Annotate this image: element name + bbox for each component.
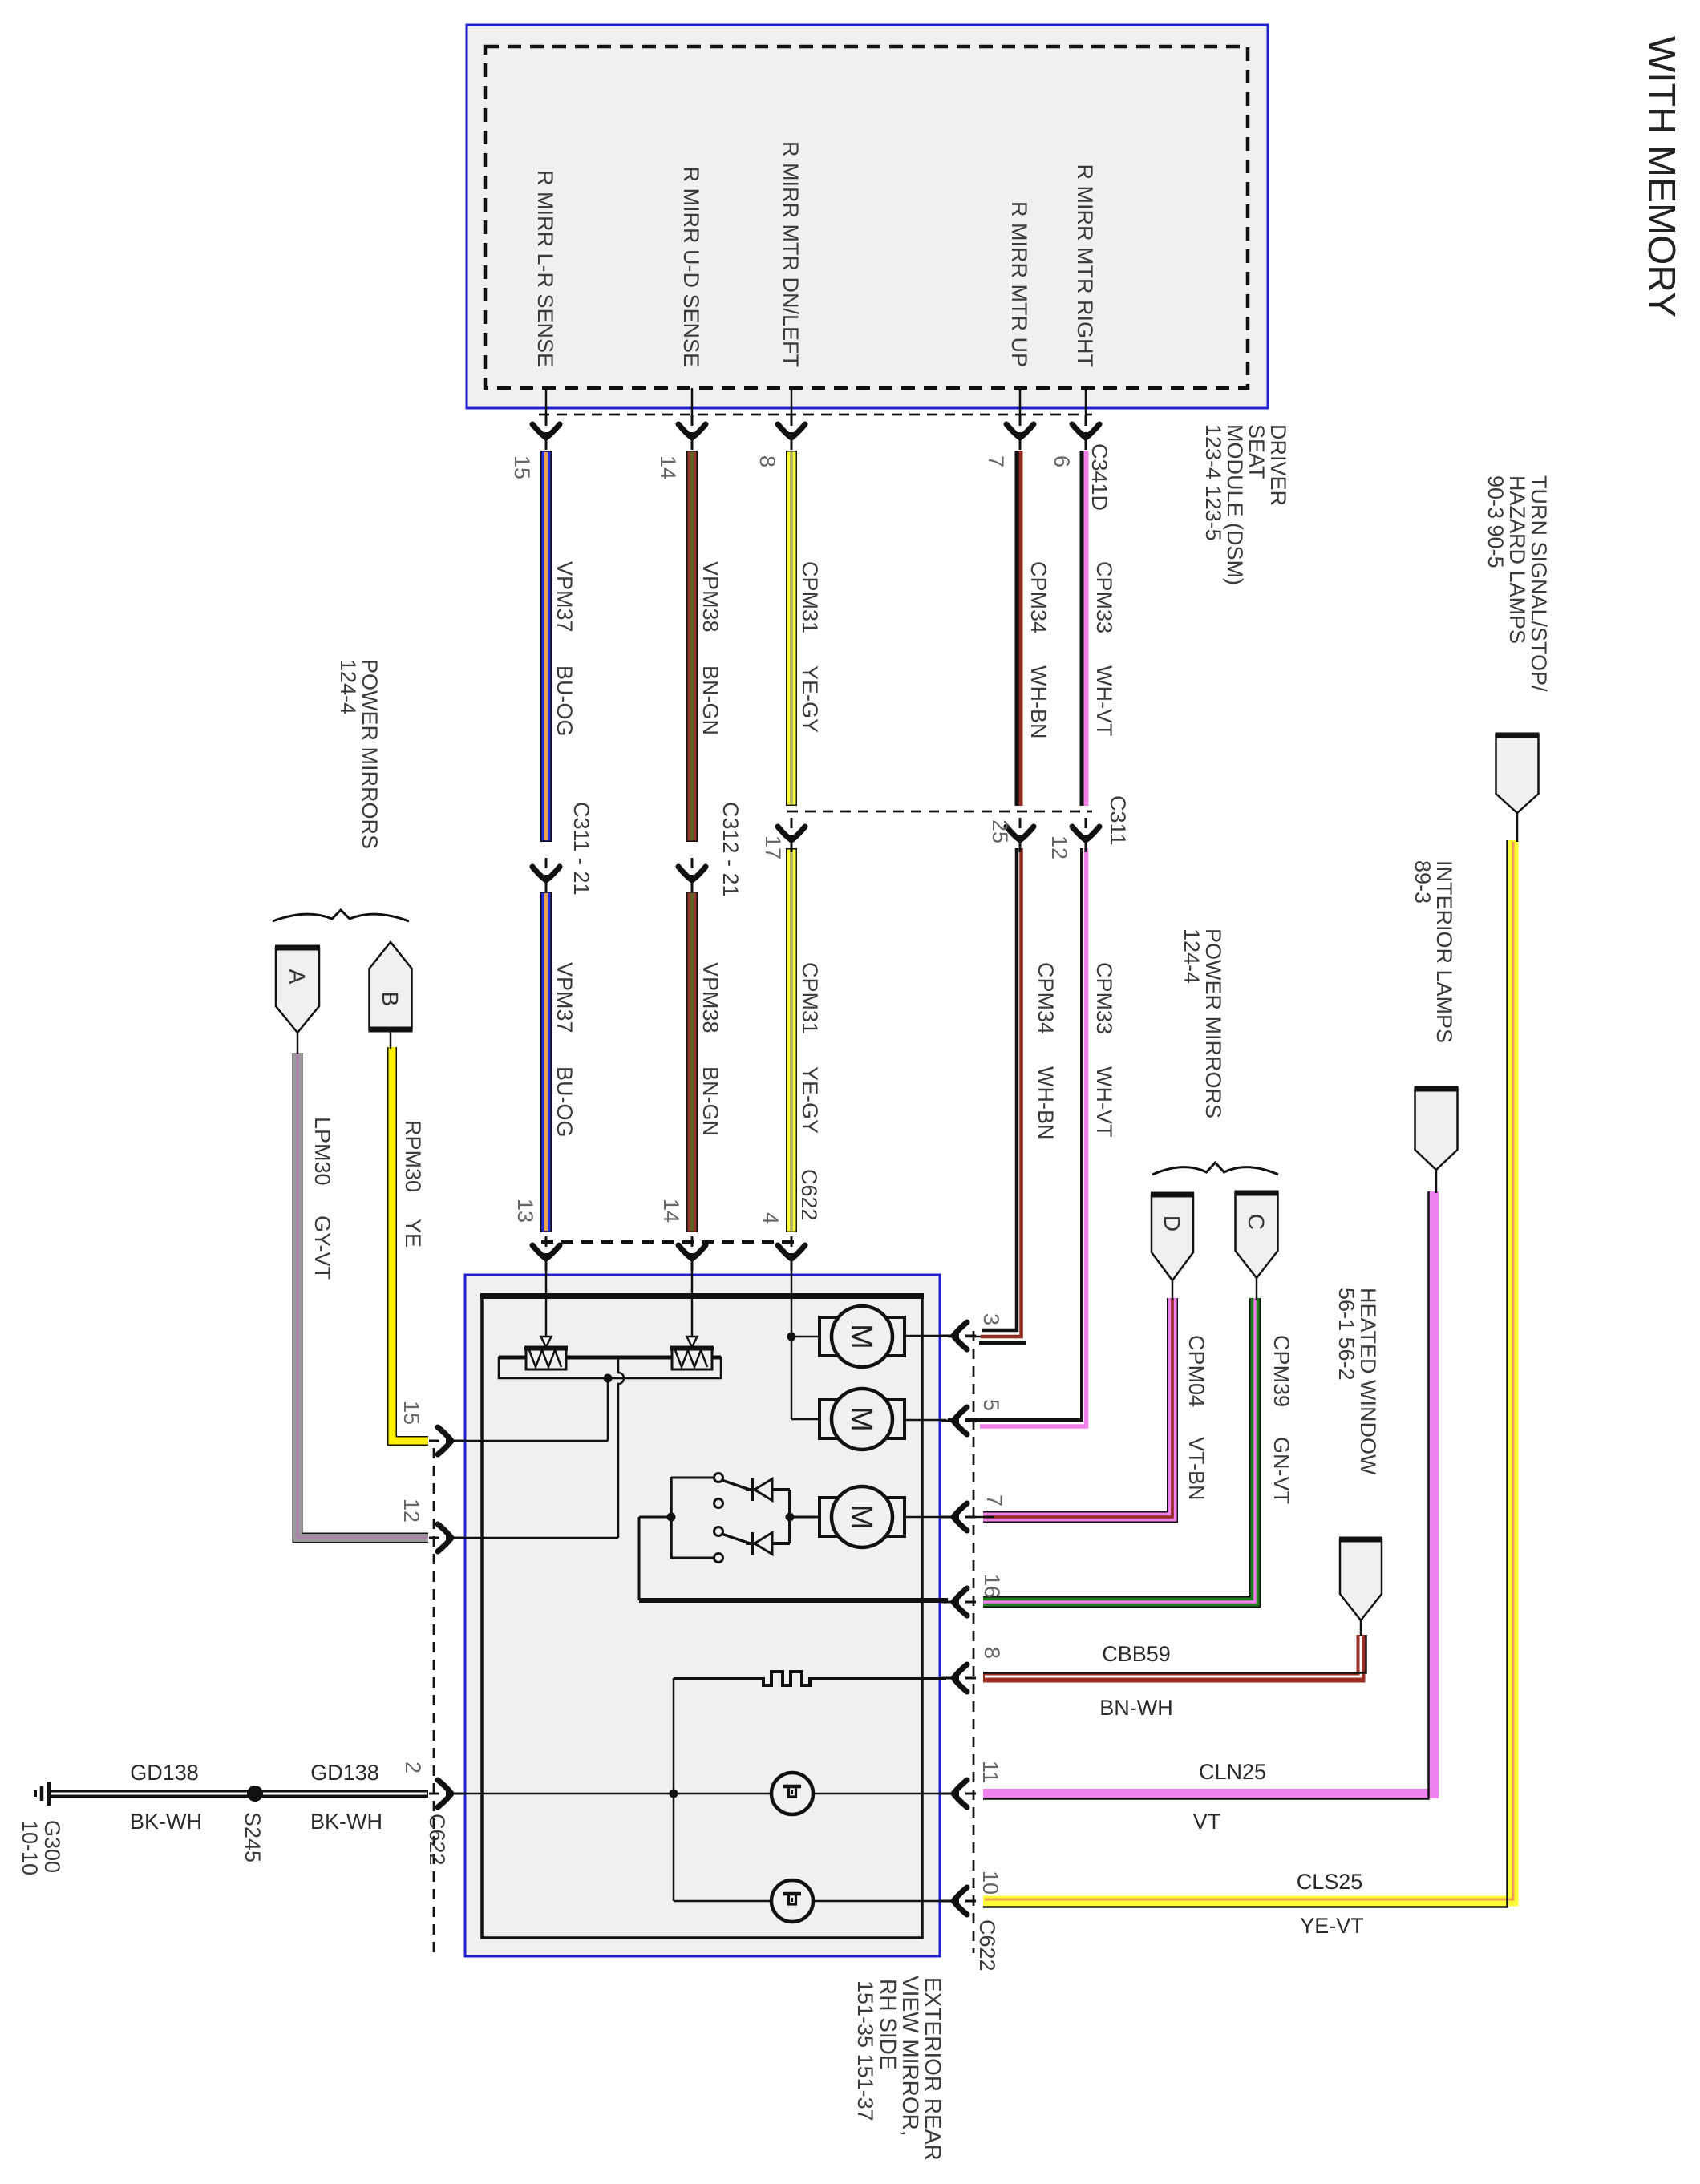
wire CPM34 WH-BN seg1 — [1017, 451, 1021, 806]
wire label CPM34 lower — [1034, 962, 1058, 1034]
wire VPM38 BN-GN seg1 — [686, 451, 698, 842]
wire label RPM30 — [401, 1120, 425, 1192]
pin 14b label — [659, 1199, 683, 1223]
svg-text:3: 3 — [979, 1313, 1003, 1325]
switch contact b — [714, 1499, 723, 1508]
pin 7 label — [984, 455, 1008, 467]
connector C622 left dashed line — [433, 1448, 435, 1953]
wire label YE — [401, 1219, 425, 1248]
wire label CPM33 lower — [1092, 962, 1116, 1034]
svg-text:CPM39: CPM39 — [1269, 1335, 1293, 1407]
svg-text:5: 5 — [979, 1399, 1003, 1411]
splice S245 — [247, 1786, 263, 1802]
DSM label R MIRR U-D SENSE — [679, 166, 703, 367]
pin14 wiper feed wire — [691, 1262, 694, 1337]
wire VPM38 BN-GN seg2 — [686, 892, 698, 1232]
svg-text:CPM31: CPM31 — [798, 561, 822, 633]
wire label YE-VT b — [1300, 1914, 1364, 1938]
svg-text:YE-GY: YE-GY — [798, 665, 822, 733]
connector C622 pin10 arrow — [941, 1887, 976, 1915]
connector C622 top dashed line — [541, 1240, 795, 1244]
motor1 feed branch wire — [791, 1336, 820, 1338]
wire label BU-OG lower — [552, 1066, 577, 1138]
wire CPM39 GN-VT — [983, 1298, 1255, 1602]
svg-text:TURN SIGNAL/STOP/: TURN SIGNAL/STOP/ — [1527, 475, 1551, 692]
connector C341D arrow x1354 — [1072, 415, 1099, 450]
switch blade 2 wire — [722, 1534, 750, 1543]
label C311 - 21 — [569, 802, 593, 896]
wire label VPM37 lower — [552, 962, 577, 1033]
wire LPM30 GY-VT — [297, 1053, 428, 1538]
wire label BN-GN — [698, 665, 722, 735]
label C622 bottom — [975, 1919, 999, 1972]
ground wire GD138 BK-WH — [48, 1790, 428, 1798]
connector C622 pin11 arrow — [941, 1780, 976, 1807]
svg-text:CPM33: CPM33 — [1092, 561, 1116, 633]
sensor R1 wiper arrow — [541, 1337, 552, 1347]
wire label CLN25 — [1199, 1760, 1266, 1784]
switch contact a — [714, 1474, 723, 1482]
wire label VT-BN — [1184, 1437, 1208, 1501]
svg-text:YE-GY: YE-GY — [798, 1066, 822, 1134]
pin 6 label — [1050, 455, 1074, 467]
svg-text:VPM38: VPM38 — [698, 962, 722, 1033]
svg-text:C: C — [1244, 1214, 1269, 1230]
svg-text:C622: C622 — [425, 1814, 449, 1866]
pin 11 label — [978, 1761, 1002, 1783]
pin15 supply wire — [453, 1378, 608, 1441]
wire label CPM31 — [798, 561, 822, 633]
svg-text:14: 14 — [656, 455, 680, 479]
svg-text:90-3 90-5: 90-3 90-5 — [1483, 475, 1508, 568]
exterior mirror box — [465, 1275, 940, 1956]
wire CLN25 VT — [983, 1191, 1434, 1799]
svg-text:YE-VT: YE-VT — [1300, 1914, 1364, 1938]
label C312 - 21 — [718, 802, 743, 897]
heated window stub wire — [1360, 1620, 1362, 1636]
wire VPM37 BU-OG seg2 — [540, 892, 552, 1232]
wire CPM34 WH-BN seg2 — [979, 848, 1026, 1343]
pin 16 label — [980, 1574, 1004, 1598]
svg-text:8: 8 — [755, 455, 779, 467]
svg-text:CLS25: CLS25 — [1297, 1870, 1363, 1894]
pin 2 label — [401, 1761, 425, 1773]
wire label VPM37 — [552, 561, 577, 633]
pin4 common feed wire — [791, 1262, 793, 1337]
svg-text:VPM37: VPM37 — [552, 561, 577, 633]
svg-text:10-10: 10-10 — [18, 1820, 42, 1875]
label TURN SIGNAL/STOP/ HAZARD LAMPS — [1483, 475, 1551, 692]
pin 4 label — [759, 1212, 783, 1224]
lamp L1 puddle — [771, 1773, 813, 1814]
pin 12b label — [399, 1498, 423, 1523]
motor U2 mirror left/right — [820, 1389, 905, 1450]
pin 7b label — [982, 1494, 1006, 1507]
pin16 return bus wire — [639, 1598, 948, 1603]
junction switch common — [667, 1513, 676, 1522]
svg-text:124-4: 124-4 — [1180, 928, 1204, 984]
pin 25 label — [988, 819, 1012, 843]
label HEATED WINDOW 56-1 56-2 — [1334, 1288, 1380, 1475]
wire label CLS25 — [1297, 1870, 1363, 1894]
svg-text:R MIRR MTR UP: R MIRR MTR UP — [1007, 201, 1031, 367]
sensor center tap wire with hop — [618, 1357, 624, 1538]
connector C341D arrow x681 — [532, 415, 560, 450]
svg-text:15: 15 — [399, 1401, 423, 1425]
connector C622 pin13 arrow — [532, 1236, 560, 1271]
diode D1 — [746, 1478, 790, 1501]
svg-text:15: 15 — [510, 455, 534, 479]
svg-text:C311 - 21: C311 - 21 — [569, 802, 593, 896]
svg-text:7: 7 — [984, 455, 1008, 467]
connector C311 pin12 arrow — [1072, 818, 1099, 852]
label POWER MIRRORS 124-4 left — [336, 659, 382, 849]
DSM label R MIRR L-R SENSE — [533, 170, 557, 367]
svg-text:7: 7 — [982, 1494, 1006, 1507]
fold switch bracket wire — [671, 1477, 714, 1559]
svg-text:124-4: 124-4 — [336, 659, 360, 714]
DSM pin stub wire x1354 — [1085, 388, 1087, 446]
svg-text:25: 25 — [988, 819, 1012, 843]
ground G300 symbol — [35, 1782, 49, 1806]
wire label CPM33 — [1092, 561, 1116, 633]
svg-text:89-3: 89-3 — [1411, 860, 1435, 904]
connector C622 pin7 arrow — [941, 1503, 976, 1531]
svg-text:GY-VT: GY-VT — [310, 1215, 334, 1280]
pin 15 label — [510, 455, 534, 479]
label S245 — [241, 1812, 265, 1862]
mirror inner case rect — [480, 1295, 924, 1938]
connector A — [275, 948, 320, 1033]
position sensor R2 element — [670, 1347, 714, 1369]
svg-text:C622: C622 — [975, 1919, 999, 1972]
position sensor body — [499, 1357, 721, 1378]
svg-text:CPM34: CPM34 — [1026, 561, 1050, 633]
heater return wire — [673, 1678, 675, 1901]
pin13 wiper feed wire — [545, 1262, 548, 1337]
wire label BN-GN lower — [698, 1066, 722, 1136]
lamp2 feed wire — [674, 1900, 946, 1903]
svg-text:12: 12 — [399, 1498, 423, 1523]
brace power mirrors A-B — [273, 910, 409, 921]
connector turn signal feed — [1496, 735, 1540, 813]
DSM pin stub wire x681 — [545, 388, 548, 446]
svg-text:INTERIOR LAMPS: INTERIOR LAMPS — [1432, 860, 1456, 1043]
svg-text:6: 6 — [1050, 455, 1074, 467]
svg-text:M: M — [844, 1504, 878, 1530]
svg-text:EXTERIOR REAR: EXTERIOR REAR — [921, 1977, 945, 2161]
pin7 wire — [948, 1516, 994, 1519]
svg-text:10: 10 — [978, 1871, 1002, 1895]
motor2 to pin5 wire — [905, 1419, 946, 1422]
lamp1 feed wire pin2 to pin11 — [453, 1793, 946, 1795]
connector C622 pin2 arrow — [429, 1780, 463, 1807]
wire label YE-GY lower — [798, 1066, 822, 1134]
pin 5 label — [979, 1399, 1003, 1411]
wire label VPM38 lower — [698, 962, 722, 1033]
connector interior lamps feed — [1415, 1089, 1459, 1170]
svg-text:GD138: GD138 — [310, 1761, 379, 1785]
svg-text:BU-OG: BU-OG — [552, 665, 577, 737]
svg-text:M: M — [844, 1406, 878, 1432]
wire label WH-VT — [1092, 665, 1116, 736]
wire label WH-BN — [1026, 665, 1050, 738]
DSM label R MIRR MTR DN/LEFT — [779, 141, 803, 367]
svg-text:G300: G300 — [40, 1820, 64, 1873]
svg-text:A: A — [285, 969, 310, 985]
svg-text:151-35 151-37: 151-35 151-37 — [853, 1980, 877, 2121]
motor3 to pin7 wire — [905, 1516, 946, 1519]
svg-text:CPM31: CPM31 — [798, 962, 822, 1034]
svg-text:B: B — [378, 992, 403, 1007]
wire label WH-BN lower — [1034, 1066, 1058, 1139]
sensor R2 wiper arrow — [687, 1337, 698, 1347]
svg-text:R MIRR MTR RIGHT: R MIRR MTR RIGHT — [1073, 164, 1097, 367]
wire RPM30 YE — [392, 1047, 428, 1441]
wire label CPM04 — [1184, 1335, 1208, 1407]
svg-text:R MIRR U-D SENSE: R MIRR U-D SENSE — [679, 166, 703, 367]
wire label BN-WH b — [1099, 1696, 1172, 1720]
wire VPM37 BU-OG seg1 — [540, 451, 552, 842]
position sensor track bar — [499, 1356, 721, 1360]
DSM label R MIRR MTR RIGHT — [1073, 164, 1097, 367]
pin 3 label — [979, 1313, 1003, 1325]
connector C622 pin14 arrow — [678, 1236, 706, 1271]
svg-text:D: D — [1160, 1215, 1184, 1232]
svg-text:CBB59: CBB59 — [1102, 1642, 1171, 1666]
connector C311 dashed line — [787, 811, 1092, 813]
pin12 return wire — [453, 1537, 618, 1539]
switch contact c — [714, 1527, 723, 1536]
connector C341D dashed line — [539, 414, 1092, 416]
svg-text:WH-BN: WH-BN — [1026, 665, 1050, 738]
heater element — [674, 1672, 946, 1685]
svg-text:DRIVER: DRIVER — [1266, 424, 1290, 506]
connector C622 pin4 arrow — [778, 1236, 805, 1271]
svg-text:WH-BN: WH-BN — [1034, 1066, 1058, 1139]
pin 8b label — [980, 1647, 1004, 1659]
svg-text:POWER MIRRORS: POWER MIRRORS — [1201, 928, 1225, 1118]
title WITH MEMORY — [1640, 36, 1682, 317]
DSM pin stub wire x863 — [691, 388, 694, 446]
label G300 10-10 — [18, 1820, 64, 1875]
connector C622 pin12 arrow — [429, 1524, 463, 1551]
wire label CPM39 — [1269, 1335, 1293, 1407]
connector C622 pin3 arrow — [941, 1322, 976, 1349]
junction sensor common — [604, 1374, 613, 1383]
svg-text:R MIRR MTR DN/LEFT: R MIRR MTR DN/LEFT — [779, 141, 803, 367]
connector C311-21 arrow — [532, 858, 560, 892]
connector C341D arrow x863 — [678, 415, 706, 450]
svg-text:56-1 56-2: 56-1 56-2 — [1334, 1288, 1358, 1381]
svg-text:BK-WH: BK-WH — [310, 1810, 382, 1834]
svg-text:WH-VT: WH-VT — [1092, 1066, 1116, 1137]
label INTERIOR LAMPS 89-3 — [1411, 860, 1456, 1043]
svg-text:VPM37: VPM37 — [552, 962, 577, 1033]
pin 14 label — [656, 455, 680, 479]
label EXTERIOR REAR VIEW MIRROR RH SIDE — [853, 1976, 945, 2161]
svg-text:BK-WH: BK-WH — [130, 1810, 202, 1834]
svg-text:2: 2 — [401, 1761, 425, 1773]
svg-text:12: 12 — [1047, 835, 1071, 859]
brace power mirrors C-D — [1152, 1163, 1278, 1175]
connector C341D arrow x987 — [778, 415, 805, 450]
svg-text:GN-VT: GN-VT — [1269, 1437, 1293, 1504]
svg-text:RH SIDE: RH SIDE — [876, 1979, 901, 2070]
interior lamps stub wire — [1435, 1170, 1438, 1193]
pin 17 label — [761, 835, 785, 859]
wire label YE-GY — [798, 665, 822, 733]
motor2 feed branch wire — [791, 1418, 820, 1421]
wire CPM31 YE-GY seg2 — [786, 848, 797, 1232]
svg-text:BN-GN: BN-GN — [698, 1066, 722, 1136]
svg-text:C341D: C341D — [1087, 443, 1111, 511]
pin 12 label — [1047, 835, 1071, 859]
wire CPM04 VT-BN — [983, 1298, 1172, 1517]
svg-text:13: 13 — [513, 1199, 537, 1223]
connector D stub wire — [1172, 1280, 1174, 1300]
wire label BK-WH right — [310, 1810, 382, 1834]
junction lamp feed — [670, 1790, 678, 1798]
svg-text:MODULE (DSM): MODULE (DSM) — [1223, 424, 1247, 585]
wire label LPM30 — [310, 1117, 334, 1186]
label C622 wire4 — [797, 1169, 821, 1221]
diode D2 — [746, 1532, 790, 1555]
DSM pin stub wire x1272 — [1019, 388, 1022, 446]
svg-text:BU-OG: BU-OG — [552, 1066, 577, 1138]
junction motor feed — [787, 1333, 796, 1341]
pin3 wire — [948, 1336, 981, 1338]
wire label GN-VT — [1269, 1437, 1293, 1504]
connector A stub wire — [297, 1033, 299, 1054]
svg-text:VT: VT — [1193, 1810, 1221, 1834]
connector D — [1151, 1195, 1194, 1280]
connector B stub wire — [390, 1029, 392, 1049]
switch blade 1 wire — [722, 1480, 750, 1490]
wire label WH-VT lower — [1092, 1066, 1116, 1137]
connector C622 pin5 arrow — [941, 1407, 976, 1434]
svg-text:BN-WH: BN-WH — [1099, 1696, 1172, 1720]
svg-text:14: 14 — [659, 1199, 683, 1223]
svg-text:POWER MIRRORS: POWER MIRRORS — [358, 659, 382, 849]
lamp L2 puddle — [771, 1880, 813, 1922]
svg-text:YE: YE — [401, 1219, 425, 1248]
DSM pin stub wire x987 — [791, 388, 793, 446]
pin 13 label — [513, 1199, 537, 1223]
connector C341D arrow x1272 — [1006, 415, 1034, 450]
pin 10 label — [978, 1871, 1002, 1895]
wire CPM33 WH-VT seg2 — [948, 848, 1087, 1426]
wire label GY-VT — [310, 1215, 334, 1280]
wire CBB59 BN-WH — [983, 1635, 1366, 1678]
turn signal stub wire — [1516, 813, 1519, 842]
wire CLS25 YE-VT — [983, 840, 1513, 1907]
motor common feed wire — [791, 1337, 793, 1419]
connector C622 pin15 arrow — [429, 1427, 463, 1454]
svg-text:HAZARD LAMPS: HAZARD LAMPS — [1505, 475, 1529, 644]
svg-text:123-4 123-5: 123-4 123-5 — [1201, 424, 1225, 541]
svg-text:CPM34: CPM34 — [1034, 962, 1058, 1034]
wire label VPM38 — [698, 561, 722, 633]
svg-text:17: 17 — [761, 835, 785, 859]
svg-text:VIEW MIRROR,: VIEW MIRROR, — [898, 1976, 923, 2137]
connector C311 pin25 arrow — [1006, 818, 1034, 852]
wire label CPM31 lower — [798, 962, 822, 1034]
connector B — [369, 942, 413, 1029]
connector C — [1235, 1193, 1279, 1278]
svg-text:S245: S245 — [241, 1812, 265, 1862]
svg-text:R MIRR L-R SENSE: R MIRR L-R SENSE — [533, 170, 557, 367]
wire label BU-OG — [552, 665, 577, 737]
svg-text:CPM04: CPM04 — [1184, 1335, 1208, 1407]
diode output wire — [788, 1490, 791, 1543]
svg-text:HEATED WINDOW: HEATED WINDOW — [1356, 1288, 1380, 1475]
svg-text:C312 - 21: C312 - 21 — [718, 802, 743, 897]
svg-text:CLN25: CLN25 — [1199, 1760, 1266, 1784]
svg-text:RPM30: RPM30 — [401, 1120, 425, 1192]
motor U1 mirror up/down — [820, 1306, 905, 1367]
connector C622 pin8 arrow — [941, 1664, 976, 1692]
switch contact d — [714, 1554, 723, 1563]
wire label VT b — [1193, 1810, 1221, 1834]
svg-text:4: 4 — [759, 1212, 783, 1224]
connector C311 pin17 arrow — [778, 818, 805, 852]
position sensor R1 element — [524, 1347, 568, 1369]
svg-text:WITH MEMORY: WITH MEMORY — [1640, 36, 1682, 317]
connector C622 right dashed line — [973, 1331, 975, 1953]
svg-text:BN-GN: BN-GN — [698, 665, 722, 735]
pin 8 label — [755, 455, 779, 467]
svg-text:M: M — [844, 1324, 878, 1349]
wire label GD138 right — [310, 1761, 379, 1785]
wire label CPM34 — [1026, 561, 1050, 633]
svg-text:16: 16 — [980, 1574, 1004, 1598]
connector heated window feed — [1339, 1539, 1382, 1620]
svg-text:WH-VT: WH-VT — [1092, 665, 1116, 736]
svg-text:LPM30: LPM30 — [310, 1117, 334, 1186]
diode to motor3 wire — [790, 1516, 820, 1519]
svg-text:8: 8 — [980, 1647, 1004, 1659]
wire label GD138 left — [130, 1761, 199, 1785]
connector C stub wire — [1256, 1278, 1258, 1300]
motor1 to pin3 wire — [905, 1335, 946, 1337]
svg-text:C622: C622 — [797, 1169, 821, 1221]
DSM dashed internal boundary — [485, 47, 1248, 388]
wire label CBB59 — [1102, 1642, 1171, 1666]
svg-text:SEAT: SEAT — [1245, 424, 1269, 479]
svg-text:VPM38: VPM38 — [698, 561, 722, 633]
wire label BK-WH left — [130, 1810, 202, 1834]
driver seat module DSM box — [467, 25, 1268, 408]
connector C622 pin16 arrow — [941, 1588, 976, 1616]
svg-text:VT-BN: VT-BN — [1184, 1437, 1208, 1501]
label C622 pin2 — [425, 1814, 449, 1866]
svg-text:GD138: GD138 — [130, 1761, 199, 1785]
DSM label R MIRR MTR UP — [1007, 201, 1031, 367]
wire CPM33 WH-VT seg1 — [1082, 451, 1087, 806]
label C341D — [1087, 443, 1111, 511]
svg-text:C311: C311 — [1106, 795, 1130, 846]
label POWER MIRRORS 124-4 right — [1180, 928, 1225, 1118]
pin 15b label — [399, 1401, 423, 1425]
motor U3 fold — [820, 1486, 905, 1547]
junction diode output — [786, 1513, 795, 1522]
connector C312-21 arrow — [678, 858, 706, 892]
svg-text:11: 11 — [978, 1761, 1002, 1783]
svg-text:CPM33: CPM33 — [1092, 962, 1116, 1034]
switch common to pin16 wire — [639, 1517, 671, 1600]
wire CPM31 YE-GY seg1 — [786, 451, 797, 806]
